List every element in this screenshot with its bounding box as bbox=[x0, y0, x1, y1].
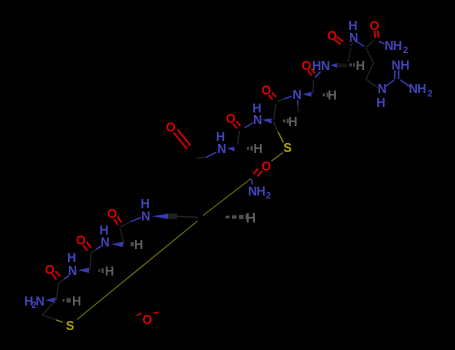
wire Ca3-C3 bbox=[120, 228, 124, 244]
node N6 label HN bbox=[312, 59, 330, 73]
wire Ca6-C7 bbox=[348, 48, 351, 62]
svg-text:O: O bbox=[76, 234, 86, 248]
wire N7-Ca7 dashes bbox=[357, 42, 365, 47]
svg-text:H: H bbox=[288, 115, 297, 129]
svg-text:S: S bbox=[66, 319, 74, 333]
svg-text:O: O bbox=[327, 29, 337, 43]
wire wedge N3-Ca3 bbox=[111, 242, 123, 247]
svg-text:H: H bbox=[328, 89, 337, 103]
wire Ca1-CH2 bbox=[42, 300, 56, 315]
wire N5ring-CH3 bbox=[297, 100, 300, 106]
node N7 with H bbox=[348, 19, 358, 45]
svg-text:2: 2 bbox=[266, 191, 271, 201]
svg-text:N: N bbox=[68, 264, 77, 278]
wire O minus left tick bbox=[137, 313, 142, 315]
wire Ca2-C2 bbox=[90, 253, 91, 270]
svg-text:N: N bbox=[217, 142, 226, 156]
svg-text:O: O bbox=[142, 313, 152, 327]
svg-text:O: O bbox=[226, 112, 236, 126]
wire guanidine C-NH2 right bbox=[400, 80, 409, 87]
wire wedge N6-Ca6 bbox=[331, 63, 338, 68]
wire hash CaCys-H bbox=[283, 120, 289, 123]
node NCys with H bbox=[252, 101, 262, 127]
wire C2=O2 double bond bbox=[83, 242, 91, 251]
wire C4p-Ca5 vertical bbox=[238, 131, 240, 144]
node N guanidine bottom with H bbox=[376, 82, 386, 110]
wire Ca5p-C6b bbox=[312, 80, 315, 94]
wire hash Ca3-H bbox=[131, 242, 134, 246]
svg-text:N: N bbox=[378, 82, 387, 96]
wire C5-N5ring bbox=[277, 99, 284, 102]
wire S2-C5a stub bbox=[272, 153, 284, 162]
node NH guanidine label bbox=[391, 58, 409, 72]
wire hash J-H bbox=[226, 216, 248, 219]
svg-text:O: O bbox=[166, 121, 176, 135]
wire long bond S1-J (olive) bbox=[77, 221, 198, 320]
node N4 with H bbox=[141, 197, 151, 224]
node N5 with H bbox=[216, 130, 226, 156]
wire hash Ca1-H bbox=[63, 299, 71, 302]
wire hash Ca5p-H bbox=[323, 93, 329, 96]
svg-text:N: N bbox=[321, 59, 330, 73]
wire CaCys-S2 bbox=[273, 121, 278, 132]
wire hash Ca6-H bbox=[349, 63, 355, 66]
wire C2p=O2p double bond (long red) bbox=[174, 130, 191, 150]
wire wedge N5ring-Ca5p bbox=[303, 92, 312, 97]
wire long bond J-C5a (olive) bbox=[203, 179, 251, 216]
wire Ca7-C8 bbox=[366, 41, 374, 48]
wire C1-N2 bbox=[59, 279, 64, 283]
wire C4p-NCys dashes bbox=[245, 123, 254, 128]
svg-text:N: N bbox=[141, 210, 150, 224]
svg-text:2: 2 bbox=[427, 88, 432, 98]
svg-text:S: S bbox=[283, 141, 291, 155]
wire wedge NCys-CaCys bbox=[262, 118, 272, 123]
wire hash Ca5-H bbox=[247, 147, 253, 150]
svg-text:H: H bbox=[246, 209, 256, 225]
wire Ca-Cys to C5 vertical bbox=[274, 104, 277, 121]
wire C4p=O4p double bond bbox=[233, 121, 241, 129]
svg-text:N: N bbox=[253, 113, 262, 127]
svg-text:H: H bbox=[400, 58, 409, 72]
wire wedge H2N-Ca1 bbox=[45, 297, 56, 303]
svg-text:H: H bbox=[312, 59, 321, 73]
svg-text:O: O bbox=[302, 59, 312, 73]
svg-text:H: H bbox=[417, 82, 426, 96]
svg-text:O: O bbox=[45, 263, 55, 277]
svg-text:N: N bbox=[391, 58, 400, 72]
svg-text:H: H bbox=[356, 59, 365, 73]
wire C3-N4 bbox=[120, 222, 131, 228]
svg-text:N: N bbox=[292, 88, 301, 102]
node NH2 amide label bbox=[248, 185, 271, 201]
svg-text:H: H bbox=[105, 265, 114, 279]
wire C5a-NH2 bbox=[252, 179, 253, 185]
svg-text:H: H bbox=[256, 185, 265, 199]
wire Ca4-J bbox=[177, 216, 198, 217]
wire C6b-N6 bbox=[315, 72, 321, 78]
svg-text:H: H bbox=[253, 142, 262, 156]
svg-text:H: H bbox=[72, 294, 81, 308]
wire C8-N8 bbox=[379, 41, 385, 44]
wire guanidine C=NH double bond bbox=[395, 70, 399, 79]
svg-text:2: 2 bbox=[403, 45, 408, 55]
svg-text:H: H bbox=[393, 39, 402, 53]
wire C7=O7 double bond bbox=[334, 37, 343, 45]
svg-text:N: N bbox=[101, 235, 110, 249]
node N3 with H bbox=[99, 223, 109, 249]
wire Arg side chain bbox=[366, 48, 378, 88]
svg-text:O: O bbox=[261, 84, 271, 98]
svg-text:N: N bbox=[349, 31, 358, 45]
svg-text:H: H bbox=[376, 96, 385, 110]
wire Ca1-C1 bbox=[57, 283, 59, 300]
wire C3=O3 double bond bbox=[114, 217, 122, 226]
wire CH2-S1 bbox=[42, 315, 56, 320]
wire O minus right tick bbox=[154, 312, 159, 314]
wire guanidine C-N bottom bbox=[386, 80, 395, 87]
wire C5a=O5a double bond bbox=[254, 169, 263, 177]
wire hash Ca2-H bbox=[98, 269, 103, 272]
wire C8=O8 double bond bbox=[374, 31, 378, 38]
wire wedge N4-Ca4 bbox=[152, 214, 169, 219]
wire wedge N2-Ca2 bbox=[78, 268, 89, 273]
svg-text:N: N bbox=[36, 295, 45, 309]
node NH2 top label bbox=[384, 39, 408, 55]
wire C2p-N5 bbox=[196, 157, 206, 160]
wire C7-N7 bbox=[351, 43, 353, 46]
svg-text:O: O bbox=[107, 207, 117, 221]
svg-text:H: H bbox=[134, 238, 143, 252]
node NH2 guanidine right label bbox=[409, 82, 433, 98]
wire C5=O5p double bond bbox=[269, 93, 277, 100]
node H2N terminus label bbox=[24, 295, 44, 311]
svg-text:O: O bbox=[370, 19, 380, 33]
wire C2-N3 bbox=[91, 250, 96, 254]
wire C1=O1 double bond bbox=[52, 271, 60, 280]
wire C6b=O6 double bond bbox=[308, 69, 315, 76]
svg-text:O: O bbox=[261, 159, 271, 173]
wire wedge N5-Ca5 bbox=[227, 147, 235, 152]
node N2 with H bbox=[67, 251, 77, 278]
